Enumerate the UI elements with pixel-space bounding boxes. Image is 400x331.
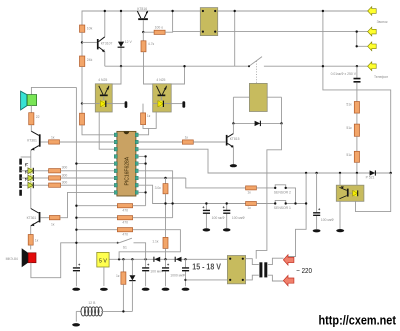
svg-text:22: 22 xyxy=(36,115,40,119)
svg-text:S1: S1 xyxy=(123,245,127,249)
svg-text:300: 300 xyxy=(62,181,68,185)
transistor Q1 KT3107 xyxy=(97,37,113,53)
resistor R16 1k xyxy=(49,135,60,144)
svg-text:300: 300 xyxy=(62,165,68,169)
wire sensor2 row from R7 xyxy=(186,178,246,188)
diode VD6 xyxy=(175,257,181,262)
resistor R13 51k xyxy=(346,124,359,136)
wire indicator column tap xyxy=(21,156,31,158)
resistor R3 1k to pin L1 xyxy=(80,104,115,135)
wire pin R2 to base resistor xyxy=(138,141,182,143)
svg-text:12 В: 12 В xyxy=(88,301,96,305)
svg-text:51к: 51к xyxy=(346,153,352,157)
wire pin R6 riser xyxy=(138,171,172,218)
zener VD1 12V xyxy=(118,11,133,66)
wire riser 470 row1 xyxy=(145,156,147,205)
capacitor terminator bar A xyxy=(112,101,127,108)
capacitor C1 100uF xyxy=(142,259,164,291)
svg-text:4 N25: 4 N25 xyxy=(98,78,107,82)
svg-text:1.1к: 1.1к xyxy=(152,240,159,244)
wire bus row 470-3 xyxy=(76,229,117,231)
wire U4 top-left pin xyxy=(339,173,341,185)
capacitor C6 100uF xyxy=(223,202,246,231)
wire pin R5 xyxy=(138,163,145,165)
ground Q3 xyxy=(230,164,237,167)
wire mic return loop xyxy=(31,243,118,278)
wire bridge minus row xyxy=(186,279,231,281)
svg-text:100 о: 100 о xyxy=(155,26,164,30)
svg-text:КТ361: КТ361 xyxy=(27,138,37,142)
wire sensor1 terminals xyxy=(256,200,306,203)
wire U4 bottom-right loop xyxy=(356,173,391,212)
capacitor C4 100uF bus xyxy=(72,264,80,291)
wire Q5 emitter xyxy=(30,226,32,235)
node divider junction xyxy=(81,41,83,43)
wire opto A LED input xyxy=(82,103,95,105)
svg-text:1к: 1к xyxy=(247,191,251,195)
LED HL2 xyxy=(21,171,49,181)
terminal arrow mains1 xyxy=(283,255,294,265)
wire R20 riser to pin L9 xyxy=(60,192,114,217)
transformer T1 xyxy=(246,258,284,281)
wire Q3 collector xyxy=(232,123,234,133)
svg-text:51к: 51к xyxy=(346,126,352,130)
svg-text:0.01мкФ х 250 V: 0.01мкФ х 250 V xyxy=(331,72,357,76)
resistor R15 22 xyxy=(29,106,40,132)
wire sensor2 terminals xyxy=(256,185,295,204)
wire Q2 base row xyxy=(143,31,154,33)
ground U4 xyxy=(336,229,344,232)
wire U4 bottom-left to ground xyxy=(339,201,341,229)
resistor R11 1k sensor1 xyxy=(246,202,257,211)
resistor R12 51k xyxy=(346,102,359,114)
wire Q1 collector to top rail xyxy=(104,11,106,37)
svg-text:4.7к: 4.7к xyxy=(148,42,155,46)
resistor R1 10k xyxy=(80,25,93,32)
wire base Q1 xyxy=(82,41,97,43)
wire contact feed riser xyxy=(234,11,236,66)
diode VD4 line xyxy=(370,170,376,175)
resistor R17 300 xyxy=(49,165,68,173)
svg-text:SENSOR 2: SENSOR 2 xyxy=(274,190,291,194)
wire R4 riser to top rail xyxy=(165,11,173,32)
svg-text:КТ3107: КТ3107 xyxy=(101,41,113,45)
capacitor C2 100uF xyxy=(162,259,170,291)
terminal arrow ring+ xyxy=(368,7,377,16)
wire sensor rail to mains tap xyxy=(288,173,306,257)
wire phone line left riser xyxy=(323,11,391,173)
switch SA1 xyxy=(117,238,146,259)
svg-text:1к: 1к xyxy=(51,135,55,139)
wire bus row 470-1 xyxy=(76,205,117,207)
capacitor C8 100uF line xyxy=(313,173,335,232)
terminal arrow tel- xyxy=(368,62,377,71)
terminal arrow ring- xyxy=(368,27,377,36)
resistor R5 4.7k xyxy=(141,32,155,52)
optocoupler U3 xyxy=(153,78,172,112)
wire arrow2-arrow3 riser xyxy=(357,32,368,47)
capacitor C3 1000uF xyxy=(170,259,189,291)
svg-text:КТ816: КТ816 xyxy=(137,7,147,11)
resistor R9 1.1k xyxy=(152,237,168,259)
wire pin R9 xyxy=(138,191,145,193)
optocoupler U4 line xyxy=(336,176,374,202)
resistor R23 470 xyxy=(117,216,132,225)
terminal arrow mains2 xyxy=(283,275,294,285)
wire Q1 emitter down to main bus xyxy=(104,52,106,67)
wire R5 to opto B anode pin xyxy=(144,52,157,84)
optocoupler U2 xyxy=(95,78,112,112)
svg-text:4 N25: 4 N25 xyxy=(156,78,165,82)
svg-text:1к: 1к xyxy=(35,239,39,243)
svg-text:1к: 1к xyxy=(51,222,55,226)
svg-text:10k: 10k xyxy=(87,27,93,31)
svg-text:КТ361: КТ361 xyxy=(27,216,37,220)
svg-text:1к: 1к xyxy=(247,206,251,210)
svg-text:PIC16F628A: PIC16F628A xyxy=(125,156,131,185)
svg-text:470: 470 xyxy=(122,209,128,213)
svg-text:100 мкФ: 100 мкФ xyxy=(232,216,245,220)
inductor L1 coil xyxy=(72,301,132,327)
svg-text:http://cxem.net: http://cxem.net xyxy=(319,313,397,328)
diode VD3 flyback xyxy=(255,121,261,126)
wire opto B emitter jog xyxy=(149,112,157,128)
LED HL3 xyxy=(21,178,49,188)
bridge rectifier VD7 xyxy=(227,256,245,284)
resistor R6 1k pullup xyxy=(138,104,151,135)
wire flyback row xyxy=(233,122,281,124)
wire speaker top to +5 bus xyxy=(31,87,76,95)
wire coil lower rail xyxy=(173,31,368,33)
svg-text:Звонок: Звонок xyxy=(377,20,388,24)
wire pin R3 to line net xyxy=(138,149,391,173)
regulator U5 5V xyxy=(97,252,109,291)
wire U4 top-right pin xyxy=(356,173,358,185)
resistor R20 1k xyxy=(49,216,60,227)
microphone BM1 xyxy=(6,248,36,267)
terminal arrow tel+ xyxy=(368,42,377,51)
transistor Q3 KT815 relay driver xyxy=(226,134,240,148)
resistor R4 100 xyxy=(154,26,165,35)
svg-text:P 521: P 521 xyxy=(366,176,375,180)
wire Q4 emitter chain xyxy=(30,150,32,208)
LED HL1 xyxy=(21,164,49,174)
wire main horizontal net y=66 xyxy=(105,65,368,67)
svg-text:470: 470 xyxy=(122,233,128,237)
svg-text:1к: 1к xyxy=(185,136,189,140)
svg-text:~ 220: ~ 220 xyxy=(296,266,312,275)
resistor R24 470 xyxy=(117,228,132,237)
IC U1 PIC16F628A xyxy=(114,131,138,196)
svg-text:3.0к: 3.0к xyxy=(155,186,162,190)
svg-text:МКЭ-84: МКЭ-84 xyxy=(6,257,18,261)
svg-text:100 мкФ: 100 мкФ xyxy=(321,218,334,222)
resistor R14 51k xyxy=(346,151,359,162)
wire R2 down to opto A LED node xyxy=(81,67,83,104)
diode VD5 xyxy=(154,257,160,262)
resistor R18 300 xyxy=(49,173,68,180)
capacitor C7 0.01uF 250V xyxy=(331,65,361,102)
resistor R2 24k xyxy=(80,56,93,67)
svg-text:КТ815: КТ815 xyxy=(230,137,240,141)
resistor R10 1k sensor2 xyxy=(246,186,257,195)
wire Q3 emitter xyxy=(232,147,234,164)
svg-text:24k: 24k xyxy=(87,58,93,62)
transistor Q5 KT361 mic amp xyxy=(27,209,41,227)
wire opto A collector riser xyxy=(110,66,121,84)
svg-text:1000 мкФ: 1000 мкФ xyxy=(170,274,185,278)
svg-text:15 - 18 V: 15 - 18 V xyxy=(192,263,221,272)
wire rectifier plus riser to relay frame xyxy=(256,123,281,258)
resistor R8 3.0k xyxy=(155,177,168,238)
svg-text:1к: 1к xyxy=(147,114,151,118)
wire opto B collector riser xyxy=(167,66,184,84)
wire Q4 base row to pin L2 xyxy=(41,141,49,143)
capacitor terminator bar B xyxy=(171,101,185,108)
resistor R22 470 xyxy=(117,204,132,213)
wire relay frame top xyxy=(233,97,281,123)
wire R1-R2 divider xyxy=(81,32,83,56)
wire Q5 base row xyxy=(40,217,49,219)
resistor R25 1k bottom xyxy=(116,259,126,311)
wire opto A emitter to pin L3 xyxy=(99,112,114,149)
wire bus row 470-2 xyxy=(76,217,117,219)
relay contact S2 xyxy=(248,57,262,84)
svg-text:SENSOR 1: SENSOR 1 xyxy=(274,206,291,210)
speaker BA1 xyxy=(21,91,37,110)
transistor Q2 KT816 xyxy=(137,7,148,32)
wire pin R8 to sensor row xyxy=(138,185,245,203)
resistor R19 300 xyxy=(49,181,68,188)
wire R7 to Q3 base xyxy=(193,141,226,143)
svg-text:100 мкФ: 100 мкФ xyxy=(150,270,163,274)
svg-text:Телефон: Телефон xyxy=(374,75,388,79)
svg-text:5 V: 5 V xyxy=(99,258,107,264)
wire power row 15-18V xyxy=(109,258,230,260)
resistor R21 1k mic xyxy=(28,235,39,246)
svg-text:12 V: 12 V xyxy=(125,40,133,44)
resistor R7 1k relay base xyxy=(182,136,193,145)
svg-text:300: 300 xyxy=(62,173,68,177)
svg-text:100 мкФ: 100 мкФ xyxy=(212,216,225,220)
wire 470 row3 to power row xyxy=(119,230,180,260)
node opto A LED feed xyxy=(81,102,83,104)
capacitor C5 100uF xyxy=(202,202,225,231)
svg-text:51к: 51к xyxy=(346,103,352,107)
relay K1 armature box xyxy=(249,83,267,111)
wire +supply top rail xyxy=(82,11,368,25)
svg-text:470: 470 xyxy=(122,221,128,225)
wire bus row pin L5 xyxy=(76,163,114,165)
wire pin R7 row xyxy=(138,177,186,179)
wire pin R4 xyxy=(138,155,145,157)
transistor Q4 KT361 speaker xyxy=(27,131,40,150)
svg-text:1к: 1к xyxy=(116,274,120,278)
relay coil K1 xyxy=(200,8,217,36)
wire +5 bus vertical xyxy=(75,87,77,267)
diode VD8 xyxy=(129,259,135,311)
indicator bar column xyxy=(19,159,22,196)
